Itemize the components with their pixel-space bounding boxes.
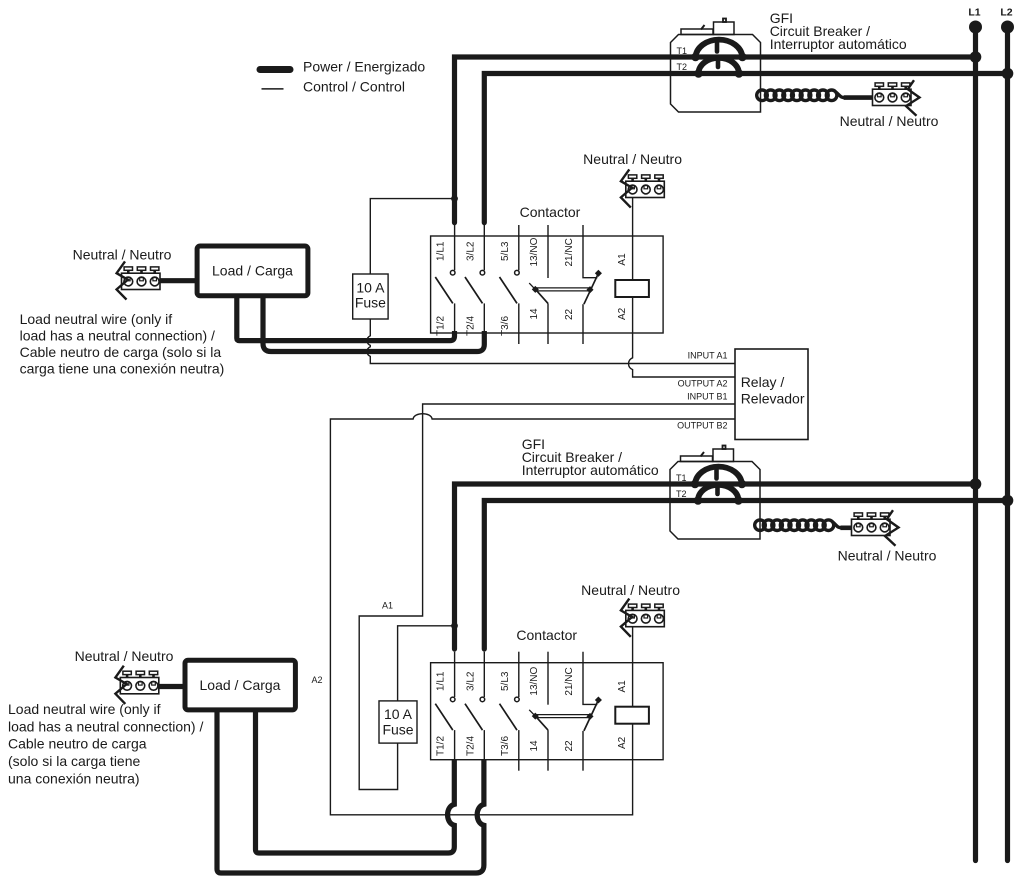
svg-text:load has a neutral connection): load has a neutral connection) / bbox=[8, 718, 203, 734]
contactor terminal labels K2 bbox=[436, 666, 628, 756]
contactor box K1 bbox=[431, 236, 663, 333]
junction T2-L2 bbox=[1002, 68, 1014, 80]
svg-text:INPUT B1: INPUT B1 bbox=[687, 392, 727, 402]
svg-text:T2/4: T2/4 bbox=[465, 736, 476, 756]
GFI terminal labels T1 T2 CB1 bbox=[677, 46, 688, 72]
contactor pole 1/L1-T1/2 K1 bbox=[435, 225, 455, 333]
svg-text:22: 22 bbox=[564, 740, 575, 752]
svg-text:L1: L1 bbox=[968, 7, 980, 19]
svg-text:T2: T2 bbox=[677, 62, 688, 72]
svg-text:T1: T1 bbox=[677, 46, 688, 56]
label GFI Circuit Breaker CB1 bbox=[770, 10, 907, 52]
svg-text:Contactor: Contactor bbox=[516, 627, 577, 643]
load box 1 bbox=[197, 246, 308, 296]
legend control line sample bbox=[262, 88, 284, 90]
contactor pole 1/L1-T1/2 K2 bbox=[435, 652, 455, 760]
label 10 A Fuse F2 bbox=[382, 706, 413, 738]
svg-text:Load / Carga: Load / Carga bbox=[200, 677, 281, 693]
terminal block TB3 load neutral bbox=[117, 261, 160, 299]
svg-text:Relevador: Relevador bbox=[741, 391, 805, 407]
terminal block TB1 neutral bbox=[873, 80, 920, 116]
wire load1 line A to K1 T1/2 bbox=[237, 297, 455, 341]
svg-text:Power / Energizado: Power / Energizado bbox=[303, 59, 425, 75]
wire relay OUTPUT B2 to K2 coil A2 bbox=[330, 414, 735, 815]
label wire A2 bbox=[311, 675, 322, 685]
label Load / Carga 1 bbox=[212, 263, 293, 279]
node L1 terminal dot bbox=[969, 21, 982, 34]
wire CB2 T2 to L2 and down to contactor K2 3/L2 bbox=[484, 501, 1007, 650]
contactor NC contact 21/NC-22 K2 bbox=[583, 652, 602, 771]
legend label Control / Control bbox=[303, 79, 405, 95]
wire F1 to relay INPUT A1 bbox=[367, 319, 735, 364]
CB2 sensor toroid arcs bbox=[691, 467, 747, 505]
relay box bbox=[735, 349, 808, 440]
svg-text:Cable neutro de carga (solo si: Cable neutro de carga (solo si la bbox=[20, 344, 222, 360]
svg-text:10 A: 10 A bbox=[356, 280, 385, 296]
wire load2 line A to K2 T1/2 bbox=[256, 711, 455, 853]
svg-text:14: 14 bbox=[529, 740, 540, 752]
wire relay INPUT B1 to F2 (A1 control) bbox=[359, 404, 735, 790]
contactor mechanical linkage K1 bbox=[529, 283, 593, 293]
junction CB2 T2-L2 bbox=[1002, 495, 1014, 507]
svg-text:T1/2: T1/2 bbox=[436, 316, 447, 336]
svg-text:Neutral / Neutro: Neutral / Neutro bbox=[581, 582, 680, 598]
label INPUT B1 bbox=[687, 392, 727, 402]
terminal block TB2 coil neutral bbox=[621, 169, 664, 207]
svg-text:A2: A2 bbox=[617, 307, 628, 320]
label Neutral / Neutro load 1 bbox=[73, 247, 172, 263]
svg-text:Load / Carga: Load / Carga bbox=[212, 263, 293, 279]
svg-text:load has a neutral connection): load has a neutral connection) / bbox=[20, 328, 215, 344]
svg-text:A1: A1 bbox=[617, 680, 628, 693]
svg-text:Interruptor automático: Interruptor automático bbox=[522, 462, 659, 478]
junction T1-L1 bbox=[970, 51, 982, 63]
svg-text:Neutral / Neutro: Neutral / Neutro bbox=[75, 648, 174, 664]
fuse F2 box bbox=[379, 701, 417, 743]
contactor NO contact 13/NO-14 K2 bbox=[535, 652, 548, 771]
svg-text:Neutral / Neutro: Neutral / Neutro bbox=[838, 547, 937, 563]
note load neutral wire 2 bbox=[8, 701, 203, 786]
contactor terminal labels K1 bbox=[436, 237, 628, 336]
fuse F1 box bbox=[353, 274, 388, 319]
wire L2 feeder bbox=[1005, 27, 1010, 861]
svg-text:21/NC: 21/NC bbox=[564, 238, 575, 266]
label wire A1 bbox=[382, 601, 393, 611]
legend label Power / Energizado bbox=[303, 59, 425, 75]
svg-text:OUTPUT B2: OUTPUT B2 bbox=[677, 420, 727, 430]
contactor box K2 bbox=[431, 663, 663, 760]
junction F2 tap on K2 1/L1 wire bbox=[451, 622, 458, 629]
terminal block TB5 coil neutral bbox=[621, 599, 664, 637]
wire control tap to F1 bbox=[370, 199, 454, 274]
label Contactor K1 bbox=[520, 204, 581, 220]
junction F1 tap on 1/L1 wire bbox=[451, 195, 458, 202]
svg-text:Contactor: Contactor bbox=[520, 204, 581, 220]
node L1 label bbox=[968, 7, 980, 19]
node L2 label bbox=[1000, 7, 1012, 19]
svg-text:T2: T2 bbox=[676, 489, 687, 499]
contactor pole 3/L2-T2/4 K1 bbox=[465, 225, 485, 333]
svg-text:13/NO: 13/NO bbox=[529, 237, 540, 266]
GFI terminal labels T1 T2 CB2 bbox=[676, 473, 687, 499]
svg-text:L2: L2 bbox=[1000, 7, 1012, 19]
svg-text:3/L2: 3/L2 bbox=[465, 241, 476, 261]
label INPUT A1 bbox=[688, 350, 728, 360]
legend power line sample bbox=[260, 66, 290, 73]
terminal block TB4 neutral bbox=[852, 510, 899, 546]
svg-text:A2: A2 bbox=[617, 736, 628, 749]
junction CB2 T1-L1 bbox=[970, 478, 982, 490]
svg-text:3/L2: 3/L2 bbox=[465, 671, 476, 691]
CB2 neutral pigtail coil bbox=[755, 520, 853, 531]
svg-text:Neutral / Neutro: Neutral / Neutro bbox=[73, 247, 172, 263]
svg-text:22: 22 bbox=[564, 308, 575, 320]
label GFI Circuit Breaker CB2 bbox=[522, 436, 659, 478]
contactor pole 5/L3-T3/6 K2 bbox=[500, 652, 520, 771]
svg-text:5/L3: 5/L3 bbox=[500, 241, 511, 261]
svg-text:INPUT A1: INPUT A1 bbox=[688, 350, 728, 360]
load box 2 bbox=[185, 660, 295, 710]
node L2 terminal dot bbox=[1001, 21, 1014, 34]
label Neutral / Neutro TB2 bbox=[583, 151, 682, 167]
svg-text:carga tiene una conexión neutr: carga tiene una conexión neutra) bbox=[20, 361, 225, 377]
svg-text:21/NC: 21/NC bbox=[564, 667, 575, 695]
contactor coil A1-A2 K1 bbox=[615, 280, 649, 297]
contactor NC contact 21/NC-22 K1 bbox=[583, 225, 602, 344]
contactor coil A1-A2 K2 bbox=[615, 707, 649, 724]
svg-text:Neutral / Neutro: Neutral / Neutro bbox=[583, 151, 682, 167]
svg-text:5/L3: 5/L3 bbox=[500, 671, 511, 691]
svg-text:A1: A1 bbox=[617, 253, 628, 266]
svg-text:Neutral / Neutro: Neutral / Neutro bbox=[840, 113, 939, 129]
svg-text:Control / Control: Control / Control bbox=[303, 79, 405, 95]
wire K1 A2 to relay OUTPUT A2 bbox=[629, 297, 735, 377]
contactor mechanical linkage K2 bbox=[529, 710, 593, 720]
label 10 A Fuse F1 bbox=[355, 280, 386, 311]
svg-text:Fuse: Fuse bbox=[355, 295, 386, 311]
label Relay / Relevador bbox=[741, 374, 805, 407]
svg-text:Relay /: Relay / bbox=[741, 374, 785, 390]
svg-text:T2/4: T2/4 bbox=[465, 316, 476, 336]
GFI breaker body CB2 bbox=[670, 446, 760, 540]
label Contactor K2 bbox=[516, 627, 577, 643]
wire CB2 T1 to L1 and down to contactor K2 1/L1 bbox=[455, 484, 976, 649]
svg-text:T1: T1 bbox=[676, 473, 687, 483]
label Load / Carga 2 bbox=[200, 677, 281, 693]
CB1 sensor toroid arcs bbox=[691, 40, 747, 78]
svg-text:1/L1: 1/L1 bbox=[436, 671, 447, 691]
wire CB1 T2 to L2 and down to contactor K1 3/L2 bbox=[484, 74, 1007, 223]
svg-text:13/NO: 13/NO bbox=[529, 666, 540, 695]
svg-text:14: 14 bbox=[529, 308, 540, 320]
svg-text:Load neutral wire (only if: Load neutral wire (only if bbox=[20, 311, 173, 327]
svg-text:T3/6: T3/6 bbox=[500, 736, 511, 756]
label Neutral / Neutro TB1 bbox=[840, 113, 939, 129]
contactor NO contact 13/NO-14 K1 bbox=[535, 225, 548, 344]
label OUTPUT B2 bbox=[677, 420, 727, 430]
svg-text:10 A: 10 A bbox=[384, 706, 413, 722]
CB1 neutral pigtail coil bbox=[757, 90, 874, 101]
label Neutral / Neutro load 2 bbox=[75, 648, 174, 664]
wire load1 line B to K1 T2/4 bbox=[263, 297, 484, 352]
wire L1 feeder bbox=[973, 27, 978, 861]
svg-text:Cable neutro de carga: Cable neutro de carga bbox=[8, 736, 147, 752]
svg-text:(solo si la carga tiene: (solo si la carga tiene bbox=[8, 753, 141, 769]
wire TB5 to K2 coil A1 bbox=[632, 627, 634, 707]
svg-text:A1: A1 bbox=[382, 601, 393, 611]
label Neutral / Neutro TB5 bbox=[581, 582, 680, 598]
contactor pole 5/L3-T3/6 K1 bbox=[500, 225, 520, 344]
svg-text:T3/6: T3/6 bbox=[500, 316, 511, 336]
wire TB6 to load box 2 bbox=[159, 684, 184, 689]
GFI breaker body CB1 bbox=[671, 19, 761, 113]
svg-text:1/L1: 1/L1 bbox=[436, 241, 447, 261]
wire load2 line B to K2 T2/4 bbox=[217, 711, 484, 873]
wire TB2 to K1 coil A1 bbox=[632, 198, 634, 281]
svg-text:una conexión neutra): una conexión neutra) bbox=[8, 770, 140, 786]
wire TB3 to load box bbox=[160, 278, 196, 283]
svg-text:Fuse: Fuse bbox=[382, 722, 413, 738]
svg-text:T1/2: T1/2 bbox=[436, 736, 447, 756]
contactor pole 3/L2-T2/4 K2 bbox=[465, 652, 485, 760]
label Neutral / Neutro TB4 bbox=[838, 547, 937, 563]
svg-text:A2: A2 bbox=[311, 675, 322, 685]
svg-text:Interruptor automático: Interruptor automático bbox=[770, 36, 907, 52]
label OUTPUT A2 bbox=[678, 378, 728, 388]
svg-text:OUTPUT A2: OUTPUT A2 bbox=[678, 378, 728, 388]
note load neutral wire 1 bbox=[20, 311, 225, 377]
svg-text:Load neutral wire (only if: Load neutral wire (only if bbox=[8, 701, 161, 717]
wire control tap to F2 bbox=[398, 626, 455, 701]
terminal block TB6 load neutral bbox=[115, 666, 158, 704]
wire CB1 T1 to L1 and down to contactor K1 1/L1 bbox=[455, 57, 976, 223]
